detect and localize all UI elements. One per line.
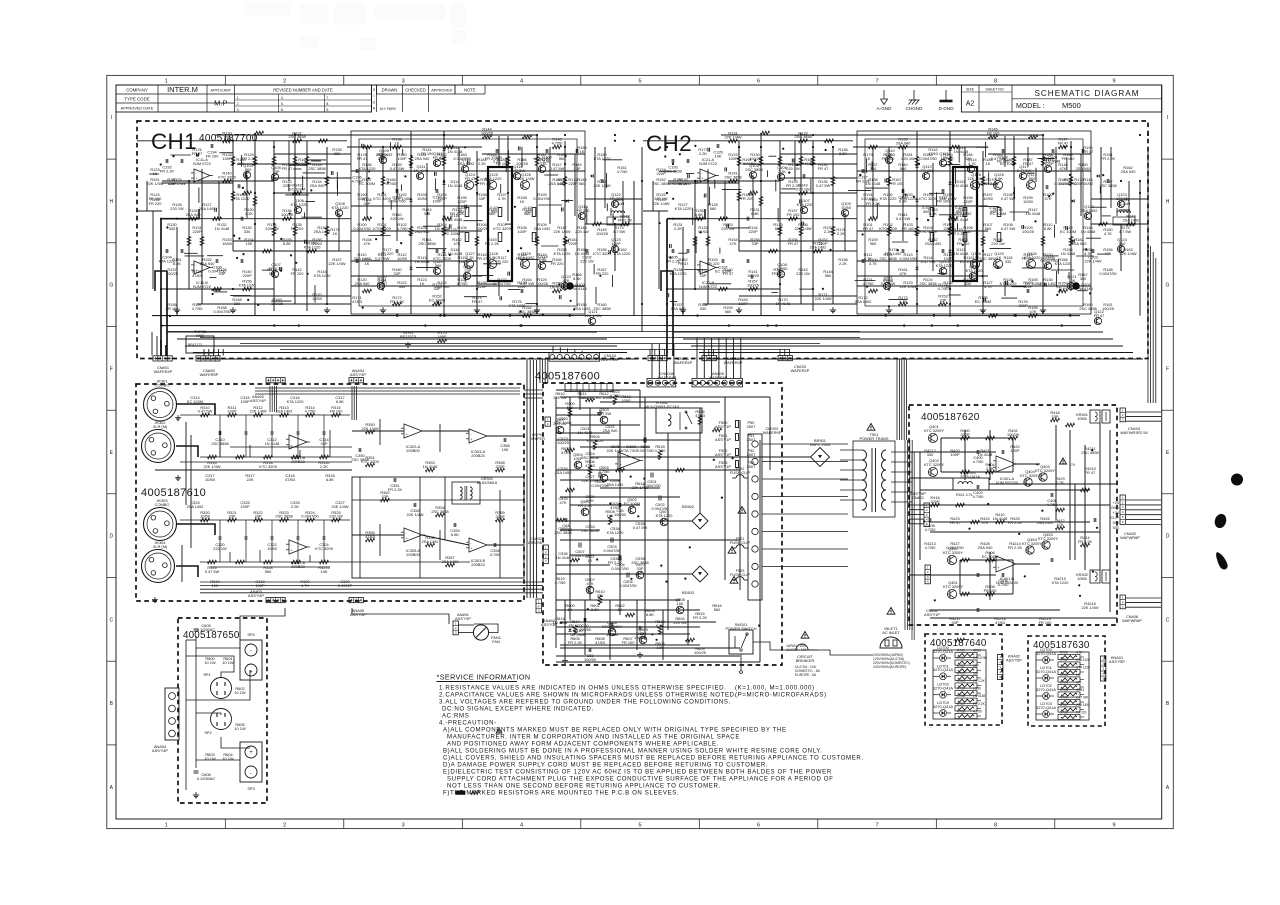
label R126: [963, 277, 972, 286]
capacitor C107: [241, 259, 243, 263]
svg-text:R1192.2K: R1192.2K: [537, 252, 546, 261]
svg-text:H: H: [1166, 199, 1170, 205]
label R158: [838, 257, 847, 266]
output junction: [1092, 571, 1094, 573]
bus junction: [520, 324, 522, 326]
svg-text:R1242SA 940: R1242SA 940: [435, 280, 451, 289]
wire junction: [443, 134, 445, 136]
legend D-GND symbol: [938, 90, 954, 111]
wire stub v: [314, 285, 316, 303]
wire stub: [478, 283, 497, 285]
svg-text:C6060.1/250AC: C6060.1/250AC: [197, 772, 216, 781]
label R196: [963, 195, 973, 204]
wire stub: [781, 188, 796, 190]
label Q113: [939, 151, 948, 160]
svg-text:KR40210KB: KR40210KB: [1076, 572, 1088, 581]
CH1 board title: [151, 129, 197, 154]
output junction: [1091, 449, 1093, 451]
resistor R502: [610, 389, 622, 405]
svg-text:R4262SA 1492: R4262SA 1492: [1037, 516, 1054, 525]
svg-text:I: I: [374, 94, 375, 98]
resistor R180: [535, 237, 539, 246]
svg-text:R4214FR 2.2K: R4214FR 2.2K: [1008, 541, 1023, 550]
label out R4213: [924, 541, 936, 550]
svg-text:R16147K: R16147K: [898, 267, 907, 276]
switch SW101 POWER SWITCH: [725, 622, 756, 654]
resistor R178: [915, 227, 919, 236]
resistor R707: [955, 702, 986, 711]
label Q108: [332, 201, 350, 210]
svg-text:Q107KTA 1220: Q107KTA 1220: [797, 198, 815, 207]
label in22: [290, 500, 299, 509]
svg-text:DR4013278-Q41A: DR4013278-Q41A: [960, 470, 980, 479]
svg-text:IC302-B200B23: IC302-B200B23: [291, 560, 306, 569]
label psu2 4: [581, 451, 598, 460]
label R145: [1059, 177, 1077, 186]
capacitor C109: [1002, 149, 1004, 153]
4005187630 inner wire loop: [1036, 652, 1089, 720]
psu wire horizontal b: [556, 633, 690, 635]
svg-text:R420100P: R420100P: [950, 448, 960, 457]
svg-text:(K=1.000, M=1.000.000): (K=1.000, M=1.000.000): [735, 685, 815, 692]
wire stub: [464, 296, 487, 298]
connector CN406 WAFER3P: [1120, 595, 1142, 623]
label R154: [575, 247, 590, 256]
svg-text:R706: R706: [1060, 696, 1068, 700]
svg-text:R318KTC 3209: R318KTC 3209: [259, 460, 277, 469]
label R117: [496, 255, 510, 264]
wire stub: [372, 260, 380, 262]
svg-text:R18233P: R18233P: [437, 152, 446, 161]
wire junction: [536, 134, 538, 136]
grid row label A left: [110, 785, 114, 791]
svg-text:R14610/50: R14610/50: [1083, 177, 1094, 186]
CH2 wire mesh v 9: [1110, 147, 1112, 208]
svg-text:R178FR 47: R178FR 47: [357, 152, 368, 161]
label R125: [457, 277, 469, 286]
label wire 2: [234, 686, 246, 695]
CH1 wire vertical 14: [443, 131, 445, 317]
connector CN203 WAFER2P: [778, 356, 810, 373]
wire junction t: [897, 249, 899, 251]
wire input row 2: [180, 520, 352, 562]
wire stub: [603, 159, 623, 161]
label Q110: [377, 274, 387, 283]
resistor R155: [213, 287, 222, 291]
capacitor small: [751, 275, 753, 279]
svg-text:R706: R706: [957, 694, 965, 698]
CH1 wire mesh 4: [233, 240, 351, 242]
wire stub v: [1056, 271, 1058, 287]
resistor R355: [365, 530, 375, 542]
svg-text:F503ASS'Y1P: F503ASS'Y1P: [715, 460, 731, 469]
label C196: [352, 175, 364, 184]
label R174: [938, 282, 950, 291]
label Q114: [433, 259, 443, 268]
svg-text:R3186.8K: R3186.8K: [325, 473, 334, 482]
svg-text:R149100/25: R149100/25: [596, 227, 608, 236]
capacitor C352: [406, 503, 423, 517]
XLR connector JK302 XLR (M): [142, 420, 175, 463]
svg-text:C: C: [1166, 617, 1170, 623]
warning triangle: [801, 632, 809, 639]
CH2 wire vertical 4: [694, 181, 696, 289]
label wire 5: [234, 722, 246, 731]
label psu R609: [694, 646, 706, 655]
capacitor C402: [973, 485, 985, 499]
resistor R515: [556, 518, 565, 522]
capacitor C401: [1002, 450, 1004, 454]
label R116: [477, 252, 488, 261]
svg-text:2SA 1492: 2SA 1492: [1076, 703, 1090, 707]
wire junction t: [694, 145, 696, 147]
CH1 wire mesh v 2: [426, 163, 428, 271]
label Q121: [1067, 274, 1077, 283]
svg-text:R1024.7/50: R1024.7/50: [397, 222, 409, 231]
CH2 wire mesh v 11: [794, 141, 796, 181]
fuse link P503: [715, 448, 756, 457]
label R189: [955, 205, 963, 214]
label R106: [476, 222, 488, 231]
svg-text:R15310/50: R15310/50: [222, 237, 233, 246]
svg-text:CN404WAFWR3P2.54: CN404WAFWR3P2.54: [1120, 426, 1148, 435]
legend A-GND symbol: [877, 90, 892, 111]
resistor R186: [759, 197, 763, 206]
output junction: [1096, 527, 1098, 529]
svg-text:Q5054.7/50: Q5054.7/50: [599, 465, 611, 474]
svg-text:4: 4: [545, 559, 547, 563]
grid row label I left: [111, 115, 112, 121]
svg-text:+: +: [471, 547, 473, 551]
label Q111: [883, 274, 893, 283]
svg-text:Q504100P: Q504100P: [573, 452, 583, 461]
wire stub: [423, 225, 441, 227]
label psu R612: [596, 391, 612, 400]
wire an05 risers: [697, 338, 741, 378]
resistor R700: [1058, 651, 1083, 660]
transistor Q114: [967, 165, 974, 172]
wire led 1: [1036, 677, 1054, 679]
connector KNA01: [1101, 655, 1126, 681]
label R118: [516, 252, 530, 261]
CH2 wire mesh v 7: [1055, 147, 1057, 224]
svg-text:C3536.8K: C3536.8K: [450, 528, 459, 537]
CH1 wire rail: [274, 192, 351, 194]
resistor R351: [361, 455, 379, 467]
svg-text:F)THE MARKED RESISTORS AR: F)THE MARKED RESISTORS ARE MOUNTED THE P…: [443, 790, 679, 797]
CH1 wire mesh v 3: [458, 147, 460, 286]
svg-text:R510330: R510330: [595, 589, 605, 598]
svg-text:R425FR 2.2K: R425FR 2.2K: [1008, 516, 1023, 525]
output junction: [1078, 584, 1080, 586]
label psu R603: [645, 608, 654, 617]
svg-text:D)A DAMAGE POWER SUPPLY CORD M: D)A DAMAGE POWER SUPPLY CORD MUST BE REP…: [443, 762, 768, 769]
label Q118: [538, 254, 547, 263]
wire junction t: [796, 164, 798, 166]
label R157: [192, 302, 204, 311]
svg-text:+: +: [471, 438, 473, 442]
wire junction: [916, 303, 918, 305]
resistor R131: [255, 131, 264, 135]
svg-text:R1130.0047/50: R1130.0047/50: [899, 252, 917, 261]
border frame outer: [107, 75, 1174, 828]
label R165: [551, 257, 565, 266]
output junction: [989, 464, 991, 466]
op-amp IC401-B: [993, 556, 1019, 585]
CH1 wire mesh 0: [274, 153, 351, 155]
svg-text:2: 2: [927, 570, 929, 574]
wire transformer secondary: [891, 452, 912, 502]
CH2 bottom bus wire 3: [674, 331, 1103, 333]
CH2 wire mesh v 12: [844, 213, 846, 251]
psu junction: [651, 633, 653, 635]
resistor R358: [495, 460, 505, 472]
wire junction: [949, 288, 951, 290]
label R155: [282, 237, 291, 246]
label R176: [836, 227, 845, 236]
svg-text:B: B: [110, 701, 114, 707]
led board part number 4005187640: [930, 638, 987, 649]
wire junction t: [859, 174, 861, 176]
resistor R144: [483, 135, 492, 139]
wire stub v: [988, 172, 990, 184]
svg-text:M500: M500: [1062, 101, 1081, 110]
capacitor small: [238, 184, 240, 188]
wire stub v: [719, 248, 721, 254]
wire junction t: [866, 286, 868, 288]
wire junction t: [888, 305, 890, 307]
svg-text:R1582.2K: R1582.2K: [838, 257, 847, 266]
wire psu right harness: [905, 440, 912, 630]
label R102: [397, 222, 409, 231]
capacitor C502: [651, 496, 669, 511]
label R179: [377, 152, 386, 161]
grid tick right: [1162, 409, 1174, 411]
label R195: [939, 192, 956, 201]
zener D121: [566, 239, 569, 242]
label R181: [568, 237, 578, 246]
wire junction: [738, 146, 740, 148]
wire junction: [476, 192, 478, 194]
wire junction: [614, 223, 616, 225]
svg-text:R15447K: R15447K: [728, 237, 738, 246]
svg-text:R1664.7/50: R1664.7/50: [386, 177, 398, 186]
label R177: [698, 147, 707, 156]
CH2 wire mesh 0: [780, 153, 857, 155]
CH1 bottom bus wire 5: [185, 345, 617, 347]
label out R4210: [1084, 466, 1096, 475]
svg-text:2: 2: [1122, 600, 1124, 604]
svg-text:R4282SA 940: R4282SA 940: [978, 541, 994, 550]
resistor R181: [563, 237, 567, 246]
svg-text:-: -: [406, 427, 408, 431]
wire stub v: [400, 184, 402, 191]
CH1 wire mesh 3: [351, 230, 482, 232]
CH2 wire mesh 5: [857, 260, 983, 262]
label R183: [943, 152, 955, 161]
wire stub: [526, 303, 538, 305]
svg-text:KR40110KB: KR40110KB: [1076, 412, 1088, 421]
label R142: [291, 267, 305, 276]
wire stub v: [955, 167, 957, 184]
svg-text:R3204.7K: R3204.7K: [300, 579, 310, 588]
psu wire horizontal: [560, 396, 770, 398]
label C109: [997, 155, 1011, 164]
resistor R165: [811, 157, 815, 166]
svg-text:R11210/50: R11210/50: [397, 252, 408, 261]
svg-text:+24GND+24CLIPSIGSIG: +24GND+24CLIPSIGSIG: [1111, 501, 1120, 530]
label in20: [187, 500, 204, 509]
capacitor C107: [722, 259, 724, 263]
input ground stubs: [152, 415, 181, 602]
label R195: [457, 195, 467, 204]
capacitor small: [465, 205, 467, 209]
svg-text:4: 4: [999, 670, 1001, 674]
svg-text:R4101N 4148: R4101N 4148: [993, 512, 1008, 521]
svg-text:R14722K 1/4W: R14722K 1/4W: [553, 225, 570, 234]
svg-text:CN203WAFER2P: CN203WAFER2P: [791, 364, 810, 373]
svg-text:R1312.2K: R1312.2K: [673, 222, 682, 231]
CH2 wire rail: [853, 146, 988, 148]
capacitor small: [331, 171, 333, 175]
ground: [474, 307, 480, 313]
label R164: [520, 277, 535, 286]
grid tick top: [817, 75, 819, 85]
wire junction t: [1056, 294, 1058, 296]
CH2 wire mesh 3: [857, 230, 988, 232]
svg-text:NOT LESS THAN ONE SECOND BEFOR: NOT LESS THAN ONE SECOND BEFORE RETURING…: [447, 783, 721, 790]
svg-text:A-GND: A-GND: [877, 106, 892, 111]
label psu2 0: [554, 416, 571, 425]
resistor R146: [553, 145, 562, 149]
svg-text:5: 5: [999, 675, 1001, 679]
connector CN504 WAFER4P: [647, 371, 677, 387]
wire led 3: [933, 712, 951, 714]
psu junction: [684, 578, 686, 580]
wire stub: [230, 295, 251, 297]
label R155: [750, 237, 759, 246]
svg-text:-: -: [196, 264, 198, 268]
label R141: [896, 212, 911, 221]
svg-text:R6021K: R6021K: [615, 603, 624, 612]
wire res 3: [977, 677, 981, 679]
label R187: [1023, 157, 1034, 166]
CH2 wire vertical 17: [1042, 136, 1044, 314]
svg-text:C314EC 100M: C314EC 100M: [187, 395, 203, 404]
label out R4211: [1081, 446, 1098, 455]
svg-text:R1574.7/50: R1574.7/50: [192, 302, 204, 311]
wire stub v: [198, 188, 200, 203]
wire stub: [1086, 237, 1101, 239]
capacitor small: [800, 199, 802, 203]
transistor Q111: [883, 282, 890, 289]
scan blob 2: [1213, 512, 1228, 529]
psu wire horizontal: [556, 661, 760, 663]
transistor Q120: [561, 282, 568, 289]
wire junction: [294, 192, 296, 194]
psu wire tl: [570, 554, 620, 556]
svg-text:KNA01ASS'Y5P: KNA01ASS'Y5P: [1109, 655, 1125, 664]
bus junction: [519, 324, 521, 326]
wire stub v: [1066, 158, 1068, 171]
output wire vertical: [959, 560, 961, 594]
op-amp IC102-A: [191, 157, 213, 182]
svg-text:KTA 1220: KTA 1220: [1076, 666, 1090, 670]
label R180: [397, 152, 407, 161]
svg-text:R1981K: R1981K: [517, 195, 526, 204]
resistor R509: [571, 558, 580, 562]
svg-text:R705: R705: [1060, 688, 1068, 692]
label psu2 18: [608, 556, 623, 565]
svg-text:2: 2: [538, 604, 540, 608]
psu gnd stubs: [562, 410, 643, 663]
wire junction: [443, 180, 445, 182]
wire junction t: [905, 194, 907, 196]
label R191: [989, 205, 997, 214]
psu junction: [630, 578, 632, 580]
wire stub: [1012, 286, 1026, 288]
resistor R410: [993, 512, 1008, 524]
wire junction: [160, 218, 162, 220]
wire stub: [567, 285, 584, 287]
svg-text:R4219FR 100: R4219FR 100: [1039, 616, 1053, 625]
capacitor C198: [862, 259, 864, 263]
label R103: [415, 225, 431, 234]
capacitor C505: [619, 573, 637, 588]
label R129: [728, 152, 738, 161]
resistor R156: [243, 287, 252, 291]
svg-text:LD7033270-Q41A: LD7033270-Q41A: [933, 700, 953, 709]
wire stub v: [586, 207, 588, 224]
title block table: [116, 85, 372, 112]
capacitor small: [508, 272, 510, 276]
speakon connector SP1: [203, 672, 231, 699]
label R141: [267, 267, 276, 276]
label R189: [1062, 152, 1076, 161]
svg-text:C3176.8K: C3176.8K: [335, 395, 344, 404]
diode D119: [409, 267, 412, 270]
CH1 wire vertical 19: [594, 147, 596, 224]
bus junction: [298, 324, 300, 326]
svg-text:R1270.0047/50: R1270.0047/50: [493, 277, 511, 286]
diode D510: [568, 628, 586, 637]
resistor R148: [1099, 222, 1108, 226]
resistor R138: [393, 145, 402, 149]
svg-text:1.RESISTANCE VALUES ARE INDICA: 1.RESISTANCE VALUES ARE INDICATED IN OHM…: [439, 685, 726, 692]
svg-text:2: 2: [1122, 500, 1124, 504]
transistor V50?: [635, 562, 645, 579]
output wire vertical: [989, 552, 991, 600]
label R157: [747, 279, 759, 288]
wire junction t: [862, 233, 864, 235]
transistor Q502: [624, 497, 640, 514]
svg-text:2: 2: [1102, 661, 1104, 665]
label R143: [796, 267, 810, 276]
label R192: [393, 192, 410, 201]
label R115: [943, 252, 952, 261]
CH2 wire mesh v 3: [964, 147, 966, 286]
label R199: [1023, 195, 1034, 204]
CH1 wire vertical 5: [201, 169, 203, 304]
capacitor small: [272, 177, 274, 181]
wire junction: [564, 146, 566, 148]
psu wire horizontal: [556, 439, 700, 441]
op-amp IC104-B: [697, 261, 719, 289]
diode D115: [948, 182, 951, 185]
label psu2 13: [581, 524, 598, 533]
wire stub v: [402, 149, 404, 155]
resistor R324: [301, 510, 319, 522]
